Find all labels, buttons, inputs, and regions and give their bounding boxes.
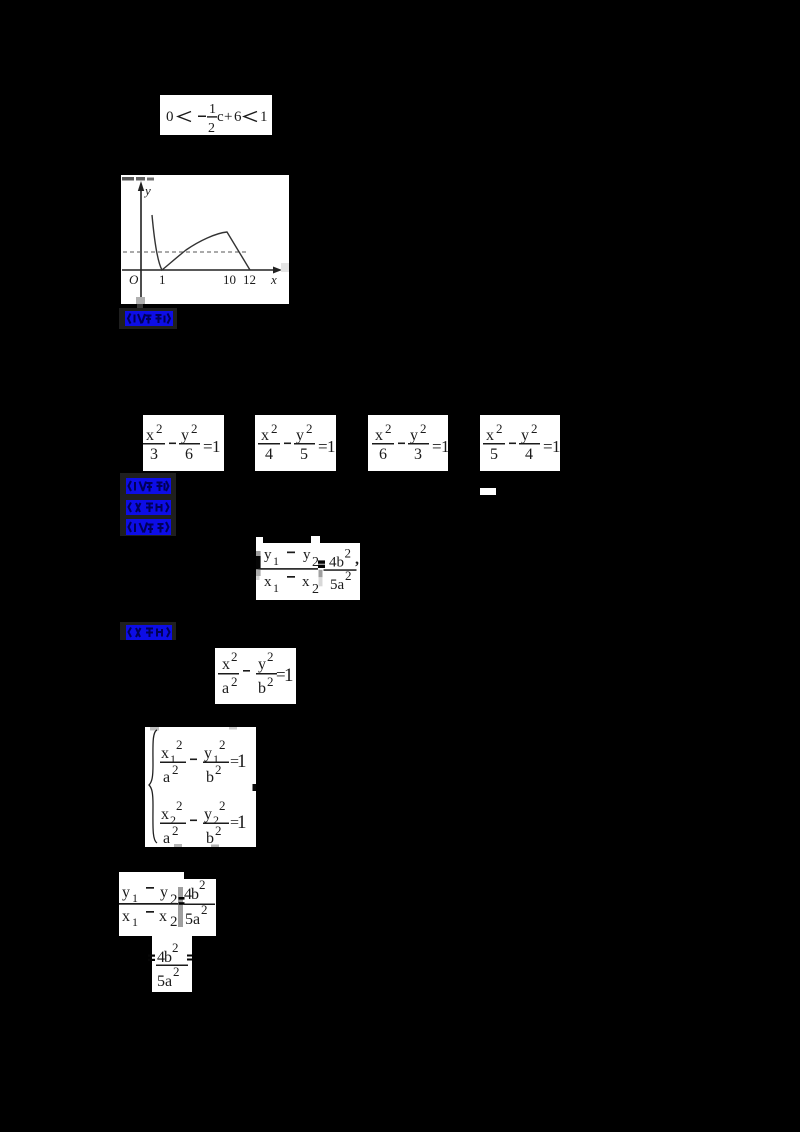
svg-text:1: 1 — [209, 102, 216, 117]
svg-text:2: 2 — [170, 892, 178, 908]
svg-text:y: y — [303, 547, 311, 563]
gray block bottom — [136, 297, 145, 304]
svg-text:6: 6 — [379, 446, 387, 463]
svg-text:2: 2 — [172, 940, 179, 955]
svg-text:x: x — [222, 656, 230, 673]
svg-text:x: x — [261, 427, 269, 444]
svg-text:1: 1 — [159, 272, 166, 287]
left edge artifact — [256, 551, 261, 556]
svg-text:1: 1 — [273, 554, 279, 568]
svg-text:2: 2 — [345, 568, 352, 583]
svg-text:x: x — [486, 427, 494, 444]
svg-text:2: 2 — [201, 902, 208, 917]
svg-text:1: 1 — [212, 437, 221, 456]
svg-text:b: b — [164, 949, 172, 966]
gray strip — [178, 887, 183, 927]
bottom formula 2: =4b^2/5a^2 — [152, 936, 192, 992]
svg-text:b: b — [191, 886, 199, 903]
white tabs above formula — [256, 537, 263, 543]
svg-text:a: a — [163, 830, 170, 847]
svg-text:y: y — [296, 427, 304, 444]
x-axis — [122, 269, 276, 271]
graph box — [121, 175, 289, 304]
svg-text:x: x — [375, 427, 383, 444]
svg-text:2: 2 — [231, 674, 238, 689]
svg-text:2: 2 — [306, 421, 313, 436]
svg-text:2: 2 — [176, 737, 183, 752]
svg-text:2: 2 — [219, 737, 226, 752]
blue answer block: 3 lines — [120, 473, 176, 536]
svg-text:y: y — [521, 427, 529, 444]
svg-text:2: 2 — [271, 421, 278, 436]
svg-text:2: 2 — [176, 798, 183, 813]
svg-text:5: 5 — [300, 446, 308, 463]
svg-text:1: 1 — [132, 915, 138, 929]
svg-text:2: 2 — [345, 546, 352, 561]
bold = — [318, 560, 325, 563]
small white dash near option D — [480, 488, 496, 495]
system of equations box — [145, 727, 256, 847]
svg-text:2: 2 — [156, 421, 163, 436]
svg-text:1: 1 — [237, 751, 247, 772]
svg-text:O: O — [129, 272, 139, 287]
svg-text:1: 1 — [237, 812, 247, 833]
svg-text:x: x — [146, 427, 154, 444]
svg-text:2: 2 — [215, 762, 222, 777]
svg-text:y: y — [264, 547, 272, 563]
svg-text:x: x — [161, 745, 169, 762]
svg-text:y: y — [410, 427, 418, 444]
option D: x^2/5 - y^2/4 = 1 — [480, 415, 560, 471]
svg-text:2: 2 — [215, 823, 222, 838]
svg-text:2: 2 — [199, 877, 206, 892]
svg-text:5: 5 — [330, 577, 338, 593]
svg-text:1: 1 — [260, 109, 268, 125]
svg-text:2: 2 — [312, 555, 319, 570]
svg-text:3: 3 — [414, 446, 422, 463]
svg-text:2: 2 — [496, 421, 503, 436]
svg-text:b: b — [206, 769, 214, 786]
curve — [152, 215, 250, 270]
svg-text:1: 1 — [441, 437, 448, 456]
svg-text:1: 1 — [132, 891, 138, 905]
svg-text:12: 12 — [243, 272, 256, 287]
svg-text:,: , — [355, 551, 359, 568]
svg-text:2: 2 — [420, 421, 427, 436]
formula: (y1-y2)/(x1-x2) = 4b^2/5a^2 , — [256, 543, 360, 600]
svg-text:10: 10 — [223, 272, 236, 287]
svg-text:c: c — [217, 109, 224, 125]
svg-text:2: 2 — [385, 421, 392, 436]
svg-text:5: 5 — [185, 911, 193, 928]
svg-text:2: 2 — [191, 421, 198, 436]
svg-text:y: y — [258, 656, 266, 673]
svg-text:x: x — [264, 574, 272, 590]
svg-text:2: 2 — [172, 823, 179, 838]
option B: x^2/4 - y^2/5 = 1 — [255, 415, 336, 471]
option C: x^2/6 - y^2/3 = 1 — [368, 415, 448, 471]
svg-text:1: 1 — [284, 665, 294, 686]
svg-text:4: 4 — [265, 446, 273, 463]
dashed line — [123, 251, 247, 253]
svg-text:y: y — [181, 427, 189, 444]
svg-text:4: 4 — [525, 446, 533, 463]
svg-text:x: x — [270, 272, 277, 287]
formula box: 0 < -1/2 c+6 < 1 — [160, 95, 272, 135]
svg-text:1: 1 — [273, 581, 279, 595]
svg-text:5: 5 — [157, 973, 165, 990]
svg-text:x: x — [122, 908, 130, 925]
gray jpeg artifacts on edges — [150, 727, 159, 731]
y-axis — [140, 188, 142, 298]
svg-text:b: b — [337, 555, 345, 571]
blue answer line 1 — [119, 308, 177, 329]
svg-text:1: 1 — [327, 437, 336, 456]
svg-text:x: x — [302, 574, 310, 590]
svg-text:y: y — [122, 884, 130, 901]
svg-text:y: y — [143, 183, 151, 198]
svg-text:a: a — [163, 769, 170, 786]
svg-text:b: b — [258, 680, 266, 697]
bottom formula 1: (y1-y2)/(x1-x2)=4b^2/5a^2 — [119, 872, 184, 936]
svg-text:6: 6 — [234, 109, 242, 125]
svg-text:2: 2 — [267, 649, 274, 664]
smudge top-left — [122, 177, 134, 181]
svg-text:2: 2 — [173, 964, 180, 979]
svg-text:b: b — [206, 830, 214, 847]
svg-text:1: 1 — [552, 437, 560, 456]
svg-text:2: 2 — [312, 582, 319, 597]
svg-text:3: 3 — [150, 446, 158, 463]
svg-text:2: 2 — [208, 121, 215, 135]
svg-text:x: x — [161, 806, 169, 823]
svg-text:2: 2 — [170, 914, 178, 930]
formula: x^2/a^2 - y^2/b^2 = 1 — [215, 648, 296, 704]
svg-text:+: + — [224, 109, 232, 125]
svg-text:y: y — [204, 745, 212, 762]
gray stub below graph box — [137, 304, 143, 311]
svg-text:0: 0 — [166, 109, 174, 125]
brace — [149, 730, 157, 843]
svg-text:y: y — [160, 884, 168, 901]
svg-text:x: x — [159, 908, 167, 925]
svg-text:a: a — [165, 973, 172, 990]
option A: x^2/3 - y^2/6 = 1 — [143, 415, 224, 471]
svg-text:a: a — [338, 577, 345, 593]
svg-text:6: 6 — [185, 446, 193, 463]
svg-text:a: a — [193, 911, 200, 928]
svg-text:2: 2 — [531, 421, 538, 436]
svg-text:y: y — [204, 806, 212, 823]
gray strip under y2 sub — [319, 570, 323, 578]
svg-text:2: 2 — [172, 762, 179, 777]
svg-text:5: 5 — [490, 446, 498, 463]
svg-text:2: 2 — [267, 674, 274, 689]
svg-text:a: a — [222, 680, 229, 697]
svg-text:2: 2 — [231, 649, 238, 664]
svg-text:2: 2 — [219, 798, 226, 813]
blue answer line (detail) — [120, 622, 176, 640]
